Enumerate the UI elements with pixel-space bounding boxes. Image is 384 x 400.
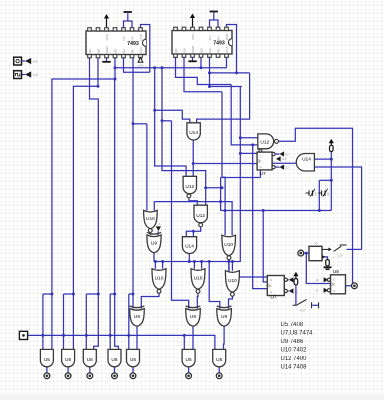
wire bottom bus y335.4 <box>27 335 215 349</box>
terminal square (bus source) <box>19 331 27 339</box>
wire pull box to switch B <box>295 285 297 306</box>
wire U12b out to U14b inputs <box>186 227 200 237</box>
wire branch to U5c left <box>86 293 98 295</box>
bubble U12 #2 <box>199 223 203 227</box>
probe at U8 <box>352 283 358 289</box>
AND gate U5 #5 <box>127 349 140 366</box>
flip-flop A ground leg <box>318 256 322 258</box>
wire U14h top input <box>314 158 331 160</box>
svg-text:U5: U5 <box>87 357 93 363</box>
wire reset-pin bridge IC1 <box>124 21 133 28</box>
wire spur y123.75 <box>133 123 147 125</box>
svg-text:U5: U5 <box>216 357 222 363</box>
wire U10a out to U9m left <box>149 232 151 235</box>
AND gate U5 #4 <box>108 349 121 366</box>
clock arrow at flip-flop A <box>322 248 328 250</box>
svg-text:U12 7400: U12 7400 <box>281 356 308 362</box>
svg-text:QC: QC <box>88 48 92 53</box>
AND gate U14 (vertical) <box>187 123 200 140</box>
NOR gate U10 (right) <box>222 235 236 256</box>
wire IC1 QB down to U5b right <box>73 57 98 349</box>
wire IC1 QA to CKB <box>124 57 150 72</box>
bubble U12 #1 <box>187 194 191 198</box>
svg-text:NC: NC <box>130 48 134 53</box>
U8 D terminal (left) <box>324 277 329 282</box>
NAND gate U12 (horizontal) <box>258 134 274 149</box>
wire bus tap NOR2 L <box>193 262 195 269</box>
wire NOR2 out to U9b right <box>196 293 199 308</box>
wire IC1 QC down to U5c right <box>90 57 99 349</box>
wire pull box down through switch loop <box>330 152 332 211</box>
wire U5 out to probe <box>89 367 91 373</box>
U7a Qbar terminal <box>272 166 275 169</box>
wire U7a Q to U14h out <box>272 162 296 164</box>
U7b Qbar terminal <box>284 289 287 292</box>
svg-text:1D: 1D <box>315 278 318 282</box>
wire U7a reset y177.5 <box>221 177 261 179</box>
svg-text:3Q: 3Q <box>285 152 288 156</box>
wire bus y72.9 <box>210 72 250 74</box>
wire bus tap NOR3 L <box>228 262 230 271</box>
wire IC2 QA staircase <box>210 57 242 86</box>
AND gate U5 #7 <box>213 349 226 366</box>
wire spur y187.8 <box>206 187 222 189</box>
switch A (top right) <box>334 245 347 252</box>
svg-text:U14 7408: U14 7408 <box>281 365 308 371</box>
wire IC2 QB staircase <box>184 57 222 92</box>
svg-text:7493: 7493 <box>213 41 225 47</box>
wire U9b out to U5f right <box>192 327 194 350</box>
svg-text:U14: U14 <box>189 130 198 136</box>
svg-text:NC: NC <box>216 48 220 53</box>
svg-text:U10: U10 <box>155 275 164 281</box>
wire QB down to U10b left input <box>222 92 225 235</box>
probe #3 <box>87 373 93 379</box>
svg-text:QB: QB <box>96 49 100 53</box>
svg-text:R1: R1 <box>208 36 212 40</box>
svg-text:U5: U5 <box>186 357 192 363</box>
svg-text:U8: U8 <box>333 269 339 275</box>
wire U7a D input <box>240 152 257 154</box>
wire x240.3 spine down to bus <box>239 87 241 263</box>
wire reset-pin bridge IC2 <box>210 20 219 27</box>
NOR gate U10 (left) <box>144 210 158 228</box>
wire long bus y210.5 <box>221 210 332 212</box>
AND gate U5 #1 <box>40 349 53 366</box>
U7a Q terminal <box>272 152 275 155</box>
bubble NOR row 1 <box>157 289 161 293</box>
U8 CLK terminal (left) <box>324 288 329 293</box>
svg-text:D: D <box>333 277 335 281</box>
ground at flip-flop A <box>327 266 329 268</box>
wire x252.7 to U7b CLK <box>253 145 268 289</box>
wire IC2 CKA drop <box>226 57 228 67</box>
svg-text:4D: 4D <box>314 242 317 246</box>
wire x220.6 drop <box>220 178 222 211</box>
svg-text:QB: QB <box>182 48 186 52</box>
svg-text:U9: U9 <box>221 314 227 320</box>
switch B (bottom) <box>293 299 319 308</box>
svg-text:QD: QD <box>199 47 203 52</box>
wire U7a bottom pin <box>259 170 261 178</box>
svg-text:D: D <box>270 278 272 282</box>
terminal into U9 mid <box>156 226 161 231</box>
wire switch left vertical <box>318 180 320 210</box>
svg-text:U10: U10 <box>146 216 155 222</box>
AND gate U14 (horizontal, points left) <box>296 154 314 172</box>
svg-text:U9: U9 <box>190 314 196 320</box>
wire bus tap NOR1 L <box>154 262 156 269</box>
terminal U/D <box>25 58 31 64</box>
svg-text:DN: DN <box>313 192 317 196</box>
wire tap to U7b D <box>263 211 267 283</box>
XOR gate U9 (mid) <box>147 235 161 253</box>
svg-text:D: D <box>260 155 262 159</box>
wire x154.7 to U12a left input <box>155 68 186 177</box>
bubble U10 right <box>227 256 231 260</box>
switch DOWN (left) <box>306 192 309 194</box>
svg-text:U9: U9 <box>134 314 140 320</box>
flip-flop U7 (bottom half 7474) <box>267 276 284 296</box>
svg-text:U5: U5 <box>44 357 50 363</box>
wire U5b left riser <box>63 294 65 350</box>
NAND gate U12 (vertical #2) <box>194 205 207 223</box>
wire U9m out to bus261 <box>153 253 155 262</box>
svg-text:CLK: CLK <box>33 73 39 77</box>
svg-text:U/D: U/D <box>33 60 39 64</box>
wire U8 out to probe <box>346 285 352 287</box>
power VCC arrow IC1 <box>106 18 108 27</box>
AND gate U14 (vertical #2) <box>182 237 196 254</box>
ground IC2 <box>192 57 194 61</box>
wire U5c left riser <box>85 294 87 350</box>
wire U5 out to probe <box>67 367 69 373</box>
wire bus tap U5f left input <box>183 335 185 349</box>
switch UP (right) <box>318 192 321 194</box>
NOR gate U10 (row 2) <box>191 269 205 290</box>
wire long bus y67.7 <box>115 67 227 69</box>
svg-text:R: R <box>270 291 272 295</box>
wire to U12h lower input <box>231 85 258 145</box>
svg-text:VCC: VCC <box>191 33 195 40</box>
wire net U10a-R / U10b-R <box>154 202 232 236</box>
wire U14a out to U7a left pin <box>193 163 257 165</box>
svg-text:U12: U12 <box>185 184 194 190</box>
svg-text:U10: U10 <box>194 275 203 281</box>
svg-text:U12: U12 <box>196 213 205 219</box>
bubble NOR row 3 <box>231 292 235 296</box>
AND gate U5 #2 <box>62 349 75 366</box>
U7b Q terminal <box>284 278 287 281</box>
wire VCC bar to reset pins IC2 <box>213 16 215 20</box>
wire U5 out to probe <box>218 367 220 373</box>
XOR gate U9 (row a) <box>130 309 145 327</box>
wire IC1 pin6 long vertical to U9a <box>132 57 134 308</box>
wire bus tap NOR1 R <box>162 262 164 269</box>
wire probe to flip-flop A <box>304 252 309 254</box>
svg-text:U10: U10 <box>224 242 233 248</box>
svg-text:U14: U14 <box>185 244 194 250</box>
pull element near U7b <box>295 276 297 279</box>
wire switch top bar <box>319 179 331 181</box>
wire to U14a right input <box>197 73 250 123</box>
wire bus y261.5 <box>154 261 240 263</box>
svg-text:7493: 7493 <box>127 41 139 47</box>
wire to U12h upper input <box>240 137 257 139</box>
wire term to U9m right <box>157 231 159 235</box>
wire IC1 CKB loop <box>141 25 150 73</box>
wire U5 out to probe <box>114 367 116 373</box>
svg-text:UP: UP <box>326 192 330 196</box>
wire bus tap NOR2 R <box>201 262 203 269</box>
XOR gate U9 (row c) <box>217 309 232 327</box>
wire U5 out to probe <box>188 367 190 373</box>
power VCC arrow IC2 <box>192 18 194 27</box>
wire x171.5 long down to U9b left <box>172 121 189 309</box>
svg-text:U7: U7 <box>260 171 266 177</box>
wire staircase to U14a left input <box>155 110 190 123</box>
svg-text:3Q: 3Q <box>285 165 288 169</box>
wire IC1 QD down to U5a right <box>52 57 115 349</box>
svg-text:R2: R2 <box>216 36 220 40</box>
svg-text:RST: RST <box>300 309 306 313</box>
svg-text:U5: U5 <box>130 357 136 363</box>
wire U9a out to U5e right <box>136 327 138 350</box>
bubble U12 horizontal <box>275 139 279 143</box>
wire flip-flop A down-left branch <box>306 253 330 283</box>
wire into U10a right input <box>153 202 155 211</box>
wire source1 to terminal <box>22 60 26 62</box>
wire IC2 CKB loop <box>227 25 237 73</box>
svg-text:U9: U9 <box>151 240 157 246</box>
svg-text:QC: QC <box>174 47 178 52</box>
probe #6 <box>186 373 192 379</box>
probe #2 <box>65 373 71 379</box>
wire branch to U5e left <box>129 293 133 295</box>
svg-text:R: R <box>333 289 335 293</box>
bubble U10 left <box>148 229 152 233</box>
probe #4 <box>112 373 118 379</box>
svg-text:U10 7402: U10 7402 <box>281 348 308 354</box>
NOR gate U10 (row 3) <box>225 271 239 293</box>
svg-text:1C: 1C <box>315 289 318 293</box>
flag CKA under IC1 <box>138 58 143 63</box>
wire U5 out to probe <box>132 367 134 373</box>
source square 2 (clock) <box>14 71 22 79</box>
svg-text:U10: U10 <box>228 278 237 284</box>
wire U14a out to U12a in <box>192 140 194 177</box>
wire branch to U5d left <box>110 293 115 295</box>
svg-text:U7: U7 <box>270 295 276 301</box>
flip-flop A (7474 half) <box>309 246 322 260</box>
svg-text:CLK: CLK <box>282 157 287 161</box>
svg-text:U12: U12 <box>260 139 269 145</box>
wire IC2 QC staircase <box>176 57 232 84</box>
wire spur U14b right input <box>192 231 194 236</box>
wire to U10a left input <box>146 124 148 211</box>
pull element at U14h input <box>330 143 332 146</box>
svg-text:VCC: VCC <box>105 33 109 40</box>
power VCC bar IC1 <box>124 11 132 13</box>
probe at flip-flop A <box>298 250 304 256</box>
wire U14b out to bus261 <box>188 253 190 261</box>
wire VCC bar to reset pins IC1 <box>127 17 129 22</box>
wire bus tap NOR3 R <box>231 262 233 271</box>
flip-flop U7 (top half 7474) <box>257 152 272 170</box>
wire U5e left riser <box>128 294 130 350</box>
wire bus to U9c left <box>209 262 220 309</box>
wire x162 to U12b right input <box>162 68 206 206</box>
wire U9c out to U5g right <box>223 327 226 350</box>
XOR gate U9 (row b) <box>186 309 201 327</box>
flip-flop U8 (7474 half) <box>331 275 346 294</box>
svg-text:U5: U5 <box>111 357 117 363</box>
svg-text:U9 7486: U9 7486 <box>281 339 304 345</box>
svg-text:U5 7408: U5 7408 <box>281 322 304 328</box>
svg-text:U14: U14 <box>302 157 311 163</box>
AND gate U5 #3 <box>83 349 96 366</box>
ground IC1 <box>106 58 108 62</box>
source square 1 (state) <box>14 57 22 65</box>
svg-text:CKA: CKA <box>138 64 144 68</box>
svg-text:CKB: CKB <box>225 34 229 40</box>
svg-text:CKA: CKA <box>225 46 229 53</box>
wire spur y120.8 <box>162 120 172 122</box>
wire U12h out long loop to probe <box>279 128 353 283</box>
probe #7 <box>216 373 222 379</box>
NAND gate U12 (vertical #1) <box>183 176 196 193</box>
wire IC2 QD drop <box>200 57 202 67</box>
U7a CLK terminal <box>276 156 281 161</box>
wire U12a out to U12b in <box>189 198 197 205</box>
power VCC bar IC2 <box>210 11 218 13</box>
wire U10b out to U7b preset <box>229 260 267 277</box>
svg-text:GND: GND <box>105 46 109 54</box>
wire U5d left riser <box>109 294 111 350</box>
U7a preset bubble <box>259 149 262 152</box>
svg-text:U7,U8 7474: U7,U8 7474 <box>281 331 314 337</box>
wire U5a left riser <box>42 294 44 350</box>
svg-text:R2: R2 <box>130 36 134 40</box>
wire vertical to U5d right <box>115 79 119 350</box>
svg-text:R1: R1 <box>122 36 126 40</box>
svg-text:CKA: CKA <box>139 46 143 53</box>
svg-text:R: R <box>260 165 262 169</box>
terminal CLK <box>25 71 31 77</box>
wire switch A to vertical <box>347 248 362 250</box>
wire NOR3 out to U9c right <box>229 296 233 308</box>
svg-text:CLR: CLR <box>337 254 342 258</box>
wire U5 out to probe <box>46 367 48 373</box>
svg-text:GND: GND <box>191 45 195 53</box>
wire U14h bottom input to switch A <box>314 167 361 249</box>
svg-text:U5: U5 <box>65 357 71 363</box>
bubble NOR row 2 <box>196 289 200 293</box>
wire NOR1 out to U9a right <box>141 293 159 308</box>
NOR gate U10 (row 1) <box>152 269 166 290</box>
wire branch to U5a left <box>43 293 52 295</box>
probe #1 <box>44 373 50 379</box>
wire source2 to terminal <box>22 74 26 76</box>
svg-text:S: S <box>159 222 161 226</box>
svg-text:CKB: CKB <box>139 34 143 40</box>
AND gate U5 #6 <box>182 349 195 366</box>
probe #5 <box>130 373 136 379</box>
wire branch to U5b left <box>64 293 74 295</box>
svg-text:QD: QD <box>113 48 117 53</box>
